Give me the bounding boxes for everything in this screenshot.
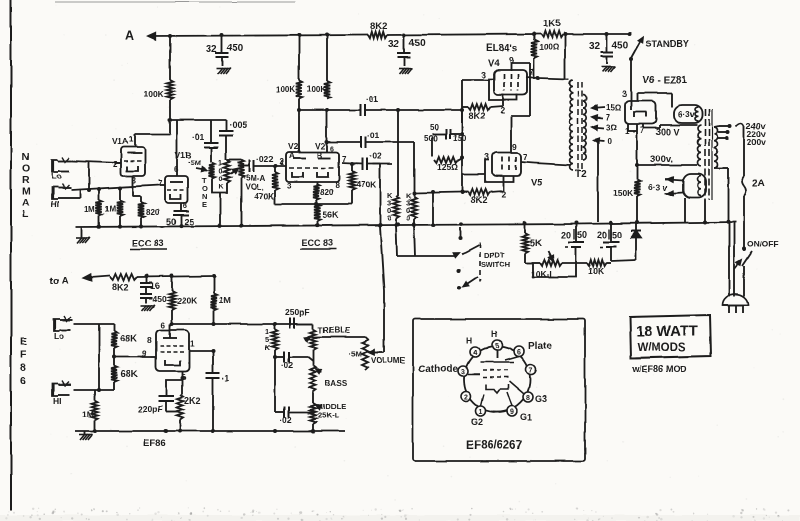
svg-text:ECC 83: ECC 83 <box>302 238 334 248</box>
svg-text:N: N <box>22 151 30 163</box>
svg-text:6: 6 <box>161 321 166 330</box>
svg-text:250pF: 250pF <box>285 307 310 317</box>
svg-text:1M: 1M <box>219 295 231 305</box>
svg-text:100K: 100K <box>307 85 326 94</box>
svg-text:·005: ·005 <box>229 120 247 130</box>
svg-text:BASS: BASS <box>325 379 348 388</box>
svg-text:8K2: 8K2 <box>112 282 129 292</box>
svg-text:220pF: 220pF <box>138 404 163 414</box>
svg-text:7: 7 <box>158 179 163 188</box>
svg-text:5K: 5K <box>530 238 542 248</box>
svg-text:TREBLE: TREBLE <box>318 326 351 335</box>
svg-text:Lo: Lo <box>51 171 61 181</box>
svg-text:18 WATT: 18 WATT <box>636 323 698 340</box>
svg-text:820: 820 <box>146 208 160 217</box>
svg-text:7: 7 <box>529 67 534 77</box>
svg-text:EL84's: EL84's <box>486 43 518 54</box>
svg-text:T2: T2 <box>575 169 587 180</box>
svg-text:1: 1 <box>219 160 223 167</box>
svg-text:2: 2 <box>113 160 118 169</box>
svg-text:HI: HI <box>51 199 60 209</box>
svg-text:E: E <box>202 200 207 209</box>
svg-text:W/MODS: W/MODS <box>637 342 686 354</box>
svg-text:L: L <box>22 209 29 221</box>
svg-text:150: 150 <box>453 134 467 143</box>
svg-text:25K-L: 25K-L <box>318 411 339 420</box>
svg-text:V6 - EZ81: V6 - EZ81 <box>642 75 687 86</box>
svg-text:2: 2 <box>500 105 505 115</box>
svg-text:1: 1 <box>479 409 483 416</box>
svg-text:1M: 1M <box>84 205 95 214</box>
svg-text:200v: 200v <box>747 137 766 147</box>
svg-text:500: 500 <box>424 134 438 143</box>
svg-text:450: 450 <box>152 294 166 304</box>
svg-text:DPDT: DPDT <box>484 251 505 260</box>
svg-text:8K2: 8K2 <box>471 195 488 205</box>
svg-text:8: 8 <box>183 201 188 210</box>
svg-text:3: 3 <box>622 89 627 99</box>
svg-text:SWITCH: SWITCH <box>481 260 511 269</box>
svg-text:Lo: Lo <box>54 331 64 341</box>
svg-text:·01: ·01 <box>366 94 379 104</box>
svg-text:470K: 470K <box>356 179 377 189</box>
svg-text:50: 50 <box>430 123 439 132</box>
svg-text:450: 450 <box>227 43 244 54</box>
svg-text:Plate: Plate <box>528 341 552 352</box>
svg-text:100K: 100K <box>276 85 295 94</box>
svg-text:·5M: ·5M <box>349 349 362 358</box>
svg-text:7: 7 <box>523 152 528 162</box>
svg-text:H: H <box>466 336 472 346</box>
svg-text:450: 450 <box>409 38 426 49</box>
svg-text:5: 5 <box>495 343 499 350</box>
svg-text:K: K <box>265 343 271 352</box>
svg-text:32: 32 <box>206 44 218 55</box>
svg-text:·02: ·02 <box>369 151 382 161</box>
svg-text:100Ω: 100Ω <box>539 43 559 52</box>
svg-text:125Ω: 125Ω <box>437 162 458 172</box>
svg-text:220K: 220K <box>177 296 198 306</box>
svg-text:32: 32 <box>388 39 400 50</box>
svg-text:300 V: 300 V <box>656 127 680 137</box>
svg-text:1M: 1M <box>82 409 94 419</box>
svg-text:O: O <box>22 163 30 175</box>
svg-text:3Ω: 3Ω <box>606 123 617 132</box>
svg-text:V5: V5 <box>531 177 543 188</box>
svg-text:4: 4 <box>473 350 477 357</box>
svg-text:1: 1 <box>129 135 134 144</box>
svg-text:470K: 470K <box>254 191 275 201</box>
svg-text:M: M <box>22 186 31 198</box>
svg-text:8: 8 <box>526 395 530 402</box>
svg-text:0: 0 <box>607 137 612 146</box>
svg-text:1: 1 <box>190 340 195 349</box>
svg-text:2: 2 <box>464 394 468 401</box>
svg-text:8K2: 8K2 <box>469 111 486 121</box>
svg-text:6·3v: 6·3v <box>678 110 695 119</box>
svg-text:32: 32 <box>589 41 601 52</box>
svg-text:·02: ·02 <box>280 416 292 425</box>
svg-text:2K2: 2K2 <box>184 396 201 406</box>
svg-text:EF86/6267: EF86/6267 <box>466 440 522 452</box>
svg-text:to A: to A <box>50 276 68 287</box>
svg-text:68K: 68K <box>120 369 138 380</box>
svg-text:HI: HI <box>53 396 62 406</box>
svg-text:2: 2 <box>501 189 506 199</box>
svg-text:8: 8 <box>335 181 340 190</box>
svg-text:820: 820 <box>320 188 334 197</box>
svg-text:6: 6 <box>517 349 521 356</box>
svg-text:G1: G1 <box>520 412 532 422</box>
svg-text:300v.: 300v. <box>650 154 673 165</box>
svg-text:STANDBY: STANDBY <box>646 39 689 49</box>
svg-text:H: H <box>491 329 497 339</box>
svg-text:EF86: EF86 <box>143 438 166 449</box>
svg-text:·022: ·022 <box>256 154 273 164</box>
svg-text:9: 9 <box>512 142 517 152</box>
svg-text:G3: G3 <box>535 394 547 404</box>
svg-text:·1: ·1 <box>222 373 230 383</box>
svg-text:10K: 10K <box>588 266 604 276</box>
svg-text:16: 16 <box>150 281 160 291</box>
svg-text:20: 20 <box>597 230 607 240</box>
svg-text:2: 2 <box>279 157 284 166</box>
svg-text:F: F <box>20 349 27 361</box>
svg-text:3: 3 <box>461 369 465 376</box>
svg-text:3: 3 <box>481 70 486 80</box>
svg-text:450: 450 <box>612 40 629 51</box>
svg-text:V1A: V1A <box>112 136 129 146</box>
svg-text:0: 0 <box>219 168 223 175</box>
svg-text:Cathode: Cathode <box>418 364 458 375</box>
svg-text:1M: 1M <box>105 205 116 214</box>
svg-text:R: R <box>22 174 30 186</box>
svg-text:50: 50 <box>577 230 587 240</box>
svg-text:56K: 56K <box>322 210 339 220</box>
svg-text:6: 6 <box>330 146 334 153</box>
svg-text:2A: 2A <box>752 178 765 189</box>
svg-text:w/EF86 MOD: w/EF86 MOD <box>631 364 687 374</box>
svg-text:·01: ·01 <box>192 132 205 142</box>
svg-text:·01: ·01 <box>367 130 380 140</box>
svg-text:G2: G2 <box>471 417 483 427</box>
svg-text:6·3 v: 6·3 v <box>648 182 668 192</box>
svg-text:3: 3 <box>287 182 292 191</box>
svg-text:E: E <box>20 336 27 348</box>
svg-text:8: 8 <box>20 362 26 374</box>
svg-text:3: 3 <box>484 152 489 162</box>
svg-text:A: A <box>22 197 30 209</box>
svg-text:15Ω: 15Ω <box>606 103 622 112</box>
svg-text:V4: V4 <box>488 58 500 69</box>
svg-text:K: K <box>219 184 224 191</box>
svg-text:ECC 83: ECC 83 <box>132 238 164 248</box>
svg-text:8K2: 8K2 <box>370 21 387 32</box>
svg-text:V2: V2 <box>315 141 326 151</box>
svg-text:8: 8 <box>147 335 152 345</box>
svg-text:·5M: ·5M <box>188 158 201 167</box>
svg-text:0: 0 <box>219 176 223 183</box>
svg-text:ON/OFF: ON/OFF <box>747 239 779 249</box>
svg-text:VOLUME: VOLUME <box>371 356 406 365</box>
svg-text:7: 7 <box>606 113 611 122</box>
svg-text:A: A <box>125 29 134 43</box>
svg-text:0: 0 <box>406 214 410 223</box>
svg-text:9: 9 <box>510 409 514 416</box>
svg-text:68K: 68K <box>120 333 138 344</box>
svg-text:6: 6 <box>20 375 26 387</box>
svg-text:100K: 100K <box>143 89 164 99</box>
svg-text:·02: ·02 <box>281 361 293 370</box>
svg-text:0: 0 <box>387 214 391 223</box>
svg-text:150K: 150K <box>613 188 634 198</box>
svg-text:20: 20 <box>561 230 571 240</box>
svg-text:7: 7 <box>529 367 533 374</box>
svg-text:1K5: 1K5 <box>543 18 561 29</box>
svg-text:·5M-A: ·5M-A <box>243 174 265 183</box>
svg-text:50: 50 <box>612 230 622 240</box>
